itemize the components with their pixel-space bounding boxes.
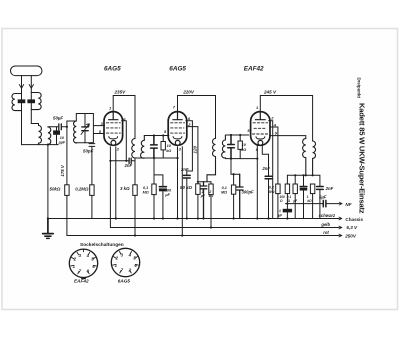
tube V2 6AG5 envelope bbox=[168, 112, 187, 146]
coil L9 T2 secondary bbox=[222, 135, 226, 158]
socket EAF42 pin digits bbox=[73, 253, 96, 273]
capacitor C10 2nF under V2 bbox=[183, 175, 190, 178]
tube V2 base circle bbox=[175, 140, 180, 145]
wire T2 bottom rail bbox=[225, 158, 257, 160]
tube V1 cathode bbox=[109, 137, 118, 139]
tube V1 grids dashed bbox=[106, 123, 120, 133]
tube V1 6AG5 envelope bbox=[104, 112, 123, 146]
wire V3 pin9 line to T3 bbox=[270, 136, 306, 139]
wire coupling wire to tank bbox=[48, 126, 67, 128]
wire V3 pin2 lead bbox=[269, 121, 273, 219]
svg-text:0,2MΩ: 0,2MΩ bbox=[75, 187, 89, 192]
capacitor C1 on left lead bbox=[18, 100, 25, 103]
svg-text:EAF42: EAF42 bbox=[74, 279, 89, 284]
resistor R12 cluster bbox=[294, 175, 296, 184]
arrow chassis output bbox=[339, 217, 343, 220]
wire V3 second lead to 2nF bbox=[262, 145, 268, 176]
svg-text:245 V: 245 V bbox=[263, 90, 277, 95]
socket EAF42 pins bbox=[71, 252, 97, 274]
socket EAF42 key tab bbox=[81, 277, 87, 279]
6.3V heater rail bbox=[110, 227, 338, 229]
wire antenna left lead bbox=[21, 76, 23, 94]
resistor R9 0.1M detector bbox=[233, 174, 235, 185]
wire 245V feed down right side bbox=[312, 96, 314, 142]
capacitor C4 10uuF to rail bbox=[56, 127, 58, 145]
svg-text:3 kΩ: 3 kΩ bbox=[120, 186, 130, 191]
resistor R4 10k grid V2 bbox=[162, 136, 164, 159]
resistor R10 cluster bbox=[276, 184, 280, 194]
socket EAF42 circle bbox=[69, 249, 97, 277]
resistor R13 cluster bbox=[310, 184, 314, 194]
tank circuit box top bbox=[76, 114, 93, 122]
tube V1 base circle bbox=[111, 140, 116, 145]
wire grid line pin5 tube1 bbox=[93, 133, 104, 135]
svg-text:Kadett 85 W UKW-Super-Einsatz: Kadett 85 W UKW-Super-Einsatz bbox=[357, 103, 366, 214]
wire 220V feed down to T2 bbox=[215, 96, 217, 139]
arrow on right lead bbox=[29, 85, 33, 89]
socket 6AG5 pin digits bbox=[115, 252, 138, 272]
svg-text:µF: µF bbox=[164, 193, 170, 197]
svg-text:Dreipunkt: Dreipunkt bbox=[357, 78, 362, 99]
svg-text:EAF42: EAF42 bbox=[244, 65, 264, 72]
tube V2 grids dashed bbox=[171, 123, 185, 133]
antenna dipole bbox=[11, 66, 43, 76]
svg-text:MΩ: MΩ bbox=[143, 190, 149, 194]
resistor R6 50k bbox=[196, 184, 200, 195]
wire V3 pin4 lead to cluster R bbox=[270, 127, 278, 184]
svg-text:Ω: Ω bbox=[279, 199, 283, 203]
wire V1 cathode lead to ground bbox=[115, 147, 117, 219]
resistor R11 cluster bbox=[286, 175, 288, 184]
tube V3 grids dashed bbox=[252, 123, 267, 134]
wire antenna right lead bbox=[30, 76, 32, 93]
svg-text:Chassis: Chassis bbox=[345, 217, 363, 222]
svg-text:50 kΩ: 50 kΩ bbox=[180, 185, 193, 190]
capacitor C11 2uF bbox=[200, 182, 207, 219]
svg-text:2nF: 2nF bbox=[325, 186, 334, 191]
capacitor C17 5uF NF bbox=[323, 200, 326, 206]
ground symbol bbox=[43, 219, 54, 234]
socket 6AG5 circle bbox=[111, 248, 139, 276]
coil L3 input transformer primary bbox=[39, 126, 42, 145]
wire V3 anode to 245V rail bbox=[260, 96, 312, 111]
svg-text:6AG5: 6AG5 bbox=[104, 65, 121, 72]
tank circuit box right/bottom bbox=[76, 114, 93, 143]
tube V3 cathode bbox=[256, 137, 265, 139]
coil L4 input transformer secondary bbox=[48, 127, 51, 145]
svg-text:5µF: 5µF bbox=[319, 195, 327, 200]
svg-text:50kΩ: 50kΩ bbox=[50, 187, 61, 192]
svg-text:220V: 220V bbox=[182, 90, 195, 95]
resistor R2 0.2M bbox=[90, 185, 94, 196]
svg-text:kΩ: kΩ bbox=[209, 194, 214, 198]
capacitor C2 on right lead bbox=[28, 100, 35, 103]
wire grid line pin3 tube1 bbox=[93, 125, 104, 127]
svg-text:rot: rot bbox=[323, 230, 329, 235]
coil L2 antenna right bbox=[31, 92, 41, 109]
capacitor C7 2nF bbox=[129, 158, 131, 163]
svg-text:Sockelschaltungen: Sockelschaltungen bbox=[80, 242, 124, 248]
coil L1 antenna left bbox=[12, 94, 22, 111]
svg-text:300pF: 300pF bbox=[242, 190, 255, 195]
svg-text:6AG5: 6AG5 bbox=[118, 279, 131, 284]
resistor R3 3k column bbox=[134, 158, 136, 185]
arrow 6.3V output bbox=[339, 226, 343, 229]
wire V2 pin6 lead bbox=[186, 121, 193, 175]
wire 2nF line under V1 bbox=[110, 160, 135, 162]
coil L11 T3 secondary bbox=[313, 141, 316, 175]
svg-text:50pF: 50pF bbox=[83, 148, 94, 153]
capacitor C9 200uF cathode bbox=[162, 175, 164, 219]
capacitor C3 50uF coupling bbox=[59, 124, 62, 130]
wire V2 anode to 220V rail bbox=[178, 96, 216, 111]
wire detector load tap bbox=[231, 159, 240, 175]
coil L6 T1 primary bbox=[132, 139, 135, 159]
capacitor C18 electrolytic to ground bbox=[286, 204, 288, 219]
capacitor C12 T2 tuning bbox=[228, 135, 235, 159]
resistor R1 50k bbox=[65, 185, 69, 196]
svg-text:235V: 235V bbox=[114, 90, 127, 95]
coil L8 T2 primary bbox=[207, 139, 216, 182]
tube V3 anode bbox=[255, 112, 265, 120]
arrow on left lead bbox=[19, 85, 23, 89]
wire V3 cathode lead to ground bbox=[256, 145, 258, 219]
svg-text:Ω: Ω bbox=[287, 199, 291, 203]
svg-text:1: 1 bbox=[279, 209, 281, 213]
ground column from antenna rail bbox=[47, 145, 49, 219]
coil L7 T1 secondary bbox=[141, 136, 145, 159]
wire right lead down and jog bbox=[31, 93, 38, 126]
wire 50k to 250V rail bbox=[66, 195, 68, 235]
wire cluster top rail bbox=[287, 175, 320, 186]
wire connector tank coil top to column bbox=[67, 120, 76, 122]
svg-text:120: 120 bbox=[193, 145, 198, 153]
wire left lead down bbox=[21, 94, 23, 145]
svg-text:175 V: 175 V bbox=[60, 164, 65, 177]
wire bottom rail of antenna circuit bbox=[22, 144, 59, 146]
svg-text:kΩ: kΩ bbox=[307, 199, 312, 203]
svg-text:250V: 250V bbox=[344, 234, 357, 239]
coil L5 oscillator tank bbox=[74, 121, 77, 143]
svg-text:6,3 V: 6,3 V bbox=[346, 225, 358, 230]
capacitor C8 T1 tuning bbox=[151, 136, 158, 159]
wire V2 heater lead to 250V rail bbox=[181, 147, 183, 236]
svg-text:50µF: 50µF bbox=[53, 116, 63, 121]
capacitor C6 50pF bbox=[89, 143, 95, 185]
svg-text:kΩ: kΩ bbox=[166, 149, 171, 153]
resistor R5 0.1M cathode bbox=[153, 175, 155, 184]
trimmer capacitor C5 variable bbox=[84, 114, 86, 143]
svg-text:2nF: 2nF bbox=[261, 166, 270, 171]
wire V1 anode to 235V rail bbox=[113, 96, 135, 111]
chassis ground rail bbox=[48, 218, 339, 220]
250V rail bbox=[67, 235, 339, 237]
svg-text:200: 200 bbox=[164, 188, 172, 192]
svg-text:6AG5: 6AG5 bbox=[169, 65, 186, 72]
wire T1 bottom rail bbox=[135, 157, 178, 159]
wire T1 grid line to V2 bbox=[144, 135, 169, 137]
resistor R8 10k grid V3 bbox=[239, 135, 241, 159]
tube V2 cathode bbox=[173, 137, 182, 139]
wire V1 heater lead to 6.3V bbox=[109, 147, 111, 228]
capacitor C14 2nF under V3 bbox=[265, 176, 272, 179]
wire 235V feed down to T1 bbox=[134, 96, 136, 139]
svg-text:kΩ: kΩ bbox=[241, 148, 246, 152]
node junction 50uF wire bbox=[66, 126, 68, 128]
svg-text:µµF: µµF bbox=[58, 140, 66, 144]
svg-text:2nF: 2nF bbox=[124, 163, 133, 168]
arrow 250V output bbox=[339, 234, 343, 237]
wire cathode RC tap bbox=[154, 158, 163, 175]
svg-text:MΩ: MΩ bbox=[221, 190, 227, 194]
svg-text:schwarz: schwarz bbox=[319, 213, 336, 218]
coil L10 T3 primary bbox=[303, 139, 306, 176]
wire T2 grid line to V3 bbox=[225, 134, 248, 136]
wire V2 cathode lead to ground bbox=[177, 147, 179, 219]
capacitor C15 cluster bbox=[303, 175, 305, 218]
tube V3 base circle bbox=[258, 140, 263, 145]
svg-text:NF: NF bbox=[345, 202, 351, 207]
wire NF line bbox=[285, 203, 338, 205]
svg-text:µF: µF bbox=[200, 194, 206, 198]
tube V2 anode bbox=[173, 112, 182, 120]
socket 6AG5 pins bbox=[113, 252, 139, 274]
wire 0.2M to ground rail bbox=[91, 195, 93, 218]
wire V2 pin2 lead to 50k bbox=[187, 127, 198, 184]
resistor R7 2k bbox=[210, 182, 212, 184]
wire node line under V2 bbox=[198, 181, 211, 183]
tube V1 anode bbox=[109, 112, 118, 120]
svg-text:2nF: 2nF bbox=[180, 167, 189, 172]
capacitor C16 2nF output bbox=[317, 187, 324, 190]
svg-text:MΩ: MΩ bbox=[268, 190, 274, 194]
wire V1 pin6 lead bbox=[122, 121, 127, 161]
capacitor C13 300pF bbox=[236, 174, 243, 218]
tube V3 EAF42 envelope bbox=[251, 112, 270, 146]
svg-text:gelb: gelb bbox=[320, 222, 330, 227]
wire 175V column bbox=[66, 121, 68, 185]
wire 2k to 6.3V rail bbox=[210, 195, 212, 228]
wire 3k to 250V rail bbox=[134, 195, 136, 235]
arrow NF output bbox=[339, 202, 342, 205]
